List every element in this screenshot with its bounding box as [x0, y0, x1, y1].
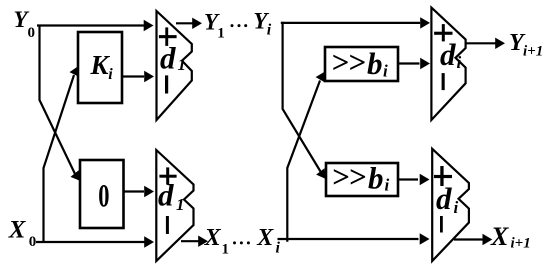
arrowhead lower shifter output into U4: [420, 174, 430, 185]
arrowhead Y0 into U1: [144, 20, 154, 31]
arrowhead zero output into U2: [144, 186, 154, 197]
svg-text:b: b: [368, 161, 384, 196]
wire K_i output to adder U1 minus input: [122, 75, 144, 77]
wire adder U1 output Y1: [176, 22, 193, 24]
svg-text:d: d: [436, 181, 452, 216]
svg-text:0: 0: [29, 234, 37, 250]
arrowhead diagonal into upper shifter: [316, 72, 325, 83]
minus sign in U3 (rotated bar): [442, 73, 445, 90]
arrowhead X_i into U4: [420, 233, 430, 244]
svg-text:b: b: [367, 46, 383, 81]
svg-text:d: d: [160, 41, 176, 76]
box shifter upper >>b_i: [325, 47, 398, 81]
adder U3 d_i body: [431, 8, 465, 120]
svg-text:i: i: [108, 66, 113, 83]
dots ellipsis between Y1 and Yi: [231, 24, 234, 27]
wire zero box output to adder U2 plus input: [124, 190, 145, 192]
svg-text:>>: >>: [331, 45, 365, 80]
wire upper shifter output to adder U3 minus input: [398, 62, 420, 64]
svg-text:1: 1: [178, 55, 187, 74]
minus sign in U4 (rotated bar): [440, 216, 443, 233]
minus sign in U2 (rotated bar): [166, 216, 169, 234]
plus sign in U4: [434, 175, 452, 178]
minus sign in U1 (rotated bar): [165, 75, 168, 93]
svg-text:i: i: [267, 22, 272, 39]
svg-text:1: 1: [222, 242, 230, 258]
arrowhead U3 output: [495, 38, 505, 49]
arrowhead X0 into U2: [144, 236, 154, 247]
plus sign in U2: [159, 175, 176, 178]
svg-text:i: i: [383, 62, 388, 81]
svg-text:i: i: [457, 53, 462, 72]
arrowhead U4 output: [483, 234, 493, 245]
wire adder U4 output X_i+1: [454, 238, 483, 240]
svg-text:i+1: i+1: [511, 236, 531, 252]
arrowhead upper shifter output into U3: [420, 58, 430, 69]
arrowhead U2 output: [198, 236, 208, 247]
wire X_i riser and diagonal to upper shifter box: [287, 81, 320, 242]
svg-text:X: X: [204, 225, 222, 251]
wire Y_i riser and diagonal to lower shifter box: [283, 22, 321, 172]
arrowhead diagonal into K box: [70, 66, 79, 77]
box shifter lower >>b_i: [326, 163, 398, 196]
dots ellipsis between X1 and Xi: [233, 241, 236, 244]
svg-text:1: 1: [217, 26, 225, 42]
plus sign in U3: [434, 32, 452, 35]
svg-text:i: i: [276, 240, 281, 257]
svg-text:d: d: [158, 178, 174, 213]
svg-text:X: X: [8, 216, 27, 243]
plus sign in U1: [159, 35, 177, 38]
arrowhead Y_i into U3: [420, 17, 430, 28]
wire lower shifter output to adder U4 plus input: [398, 178, 418, 180]
svg-text:i+1: i+1: [523, 44, 543, 60]
wire Y0 riser and diagonal to zero box: [40, 25, 77, 177]
arrowhead diagonal into zero box: [71, 170, 81, 181]
svg-text:1: 1: [176, 195, 185, 214]
svg-text:0: 0: [98, 178, 109, 214]
adder U4 d_i body: [432, 149, 469, 261]
wire X_i horizontal to adder U4 minus input: [278, 238, 419, 240]
box 0: [80, 160, 124, 228]
wire Y0 horizontal to adder U1 plus input: [37, 24, 144, 26]
wire X0 horizontal to adder U2 minus input: [36, 241, 145, 243]
svg-text:X: X: [256, 225, 274, 251]
wire Y_i horizontal to adder U3 plus input: [281, 22, 420, 24]
arrowhead U1 output: [192, 18, 202, 29]
svg-text:X: X: [490, 222, 509, 251]
svg-text:0: 0: [28, 25, 36, 41]
arrowhead diagonal into lower shifter: [316, 168, 326, 179]
wire adder U2 output X1: [181, 240, 199, 242]
arrowhead K_i output into U1: [144, 71, 154, 82]
wire X0 riser and diagonal to K box: [44, 75, 75, 243]
adder U2 d_1 body: [156, 150, 193, 261]
svg-text:>>: >>: [332, 159, 366, 194]
adder U1 d_1 body: [157, 11, 192, 120]
svg-text:d: d: [440, 37, 456, 72]
svg-text:i: i: [454, 198, 459, 217]
svg-text:i: i: [385, 176, 390, 195]
wire adder U3 output Y_i+1: [466, 42, 496, 44]
box K_i: [78, 32, 122, 103]
